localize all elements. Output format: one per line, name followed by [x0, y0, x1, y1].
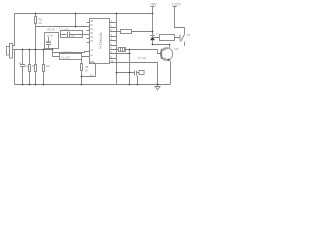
svg-text:28: 28 — [90, 20, 93, 23]
node R4 label — [46, 64, 50, 68]
wire +9V flag — [151, 7, 155, 14]
node R3 label — [32, 64, 35, 68]
IC U1 body — [90, 19, 110, 64]
svg-text:+12V: +12V — [172, 2, 182, 7]
transistor Q1 — [160, 48, 172, 61]
svg-text:1M: 1M — [46, 64, 50, 68]
svg-text:24: 24 — [90, 36, 93, 39]
wire speaker return — [14, 50, 16, 85]
ground — [155, 85, 160, 90]
wire IC bottom to R5 leg — [82, 64, 96, 77]
resistor R2 — [29, 50, 31, 85]
node C2 label — [61, 56, 70, 60]
node junction rail dots — [22, 49, 45, 51]
capacitor C6 inside module — [46, 37, 51, 49]
node D1 label — [156, 34, 160, 36]
wire C1 to IC — [83, 34, 90, 36]
node left pin numbers — [90, 20, 93, 57]
wire to IC pin upper — [53, 52, 90, 53]
node contact label — [187, 33, 191, 37]
svg-text:R7 1K: R7 1K — [139, 56, 147, 60]
svg-text:7K: 7K — [32, 64, 35, 68]
node R2 label — [25, 64, 28, 68]
node C3 label — [18, 61, 22, 65]
svg-text:Q1: Q1 — [175, 47, 179, 51]
svg-text:25: 25 — [90, 32, 93, 35]
relay contact K1a — [181, 28, 186, 47]
resistor R5 below C2 box — [81, 60, 83, 85]
node M1 text — [45, 35, 53, 44]
node junction coil bottom — [152, 31, 171, 46]
wire IC ground run — [110, 63, 158, 85]
node R5 label — [85, 65, 93, 77]
capacitor C5 body box — [139, 71, 144, 75]
svg-text:27: 27 — [90, 24, 93, 27]
node Q1 label — [175, 47, 179, 51]
capacitor C5 — [135, 71, 140, 85]
svg-text:23: 23 — [90, 40, 93, 43]
wire cap row — [117, 72, 135, 74]
node U1 part number — [99, 32, 103, 49]
module box M1 — [45, 33, 59, 49]
svg-text:26: 26 — [90, 28, 93, 31]
svg-text:13: 13 — [90, 49, 93, 52]
svg-text:D1: D1 — [156, 34, 160, 36]
svg-text:C2 u33: C2 u33 — [61, 56, 70, 60]
node junction R5 — [81, 76, 83, 78]
IC notch — [90, 62, 95, 64]
wire C2 leads — [53, 56, 90, 58]
svg-text:1K: 1K — [25, 64, 28, 68]
wire C2 drop — [52, 50, 54, 57]
IC left pin stubs — [87, 23, 90, 43]
svg-text:HT2844A: HT2844A — [99, 32, 103, 49]
node junction rail to C2 — [52, 49, 54, 51]
speaker LS1 — [7, 44, 13, 59]
wire emitter down — [170, 61, 172, 85]
node R1 label — [39, 18, 43, 26]
node R7 label — [139, 56, 147, 60]
svg-text:2u2: 2u2 — [71, 35, 76, 38]
svg-text:1K: 1K — [85, 69, 88, 73]
svg-text:+9V: +9V — [150, 2, 158, 7]
wire +9V down right side — [152, 14, 154, 36]
svg-text:1K: 1K — [39, 21, 43, 25]
node R1 C1 labels — [48, 27, 69, 31]
wire speaker rail — [13, 49, 53, 51]
node junction cap row dots — [116, 72, 131, 74]
wire bus drop to R1 wire — [75, 14, 77, 27]
capacitor C2 module box — [60, 54, 82, 60]
wire right vertical bus — [116, 14, 118, 85]
node junction drop — [75, 26, 77, 28]
node +12V label — [172, 2, 182, 7]
node junction pin joins — [129, 49, 131, 55]
wire bottom bus — [15, 84, 171, 86]
diode D1 — [150, 36, 155, 45]
resistor R7 hatched — [119, 48, 158, 52]
svg-text:R5: R5 — [85, 65, 89, 69]
resistor R4 — [43, 50, 45, 85]
wire coil bottom link — [153, 44, 171, 46]
svg-text:1K 1K: 1K 1K — [47, 35, 54, 38]
node C1 inner label — [71, 35, 76, 38]
wire top bus — [15, 13, 153, 15]
relay coil K1 — [153, 35, 181, 41]
wire R1 down to rail — [35, 27, 37, 50]
capacitor C3 electrolytic — [20, 50, 25, 85]
svg-text:K1: K1 — [187, 33, 191, 37]
wire +12V flag — [173, 7, 185, 28]
IC right pin stubs — [110, 23, 130, 59]
wire pins join vertical — [129, 50, 131, 85]
wire base feed corner — [158, 50, 162, 54]
svg-text:12: 12 — [90, 54, 93, 57]
wire collector — [169, 45, 171, 48]
wire R1 to IC pin — [36, 26, 90, 28]
node C1b label — [64, 50, 72, 54]
wire left vertical to speaker — [13, 14, 15, 46]
node right pin numbers — [111, 20, 114, 63]
svg-text:R1 1K: R1 1K — [48, 28, 56, 32]
resistor R3 — [35, 50, 37, 85]
resistor R1 top — [35, 14, 37, 27]
node junction bottom dots — [22, 84, 159, 86]
resistor R6 pin3 to relay — [121, 30, 153, 34]
node junction top bus dots — [35, 13, 154, 15]
node +9V label — [150, 2, 158, 7]
capacitor C1 module box — [61, 31, 83, 38]
